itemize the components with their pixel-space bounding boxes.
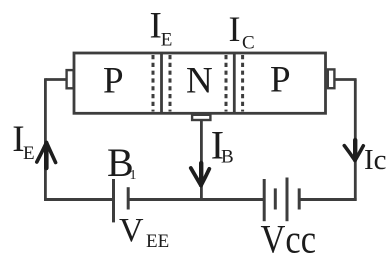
arrowhead Ic (down) on right wire (344, 140, 363, 161)
svg-text:C: C (242, 33, 255, 54)
svg-text:E: E (23, 143, 35, 164)
wire: base lead down from tab (200, 120, 203, 200)
wire: emitter tab to left corner (45, 78, 66, 81)
svg-text:P: P (103, 61, 124, 102)
svg-text:I: I (229, 9, 241, 49)
svg-text:Ic: Ic (364, 144, 387, 176)
wire: left vertical (emitter lead) (44, 78, 47, 201)
wire: Vcc to right corner (299, 198, 356, 201)
svg-text:1: 1 (130, 168, 137, 183)
arrowhead IB (down) on base wire (191, 163, 210, 186)
emitter junction right dashed line (169, 55, 172, 112)
emitter junction left dashed line (152, 55, 155, 112)
arrowhead IE (up) on left wire (37, 143, 56, 169)
wire: bottom left to battery B1 (44, 198, 113, 201)
transistor body (PNP bar) (74, 53, 326, 113)
battery B1 short plate (127, 187, 130, 209)
svg-text:N: N (186, 61, 213, 102)
battery Vcc plate 3 (long) (286, 178, 289, 222)
battery Vcc plate 2 (short) (274, 188, 277, 209)
svg-text:E: E (161, 29, 173, 50)
emitter junction solid line (160, 52, 163, 114)
base contact tab (192, 115, 210, 120)
svg-text:P: P (270, 60, 291, 101)
battery Vcc plate 4 (short) (298, 188, 301, 209)
svg-text:B: B (221, 147, 234, 168)
battery B1 long plate (112, 179, 115, 222)
collector junction solid line (233, 52, 236, 114)
wire: B1 to base node and Vcc (128, 198, 264, 201)
collector junction right dashed line (241, 55, 244, 112)
wire: right vertical (collector lead) (354, 80, 357, 201)
wire: right corner to collector tab (334, 78, 356, 81)
collector contact tab (328, 69, 335, 88)
svg-text:Vcc: Vcc (261, 217, 317, 256)
svg-text:V: V (119, 212, 144, 249)
svg-text:EE: EE (146, 231, 169, 252)
battery Vcc plate 1 (long) (263, 179, 266, 221)
emitter contact tab (67, 70, 74, 88)
collector junction left dashed line (225, 55, 228, 112)
